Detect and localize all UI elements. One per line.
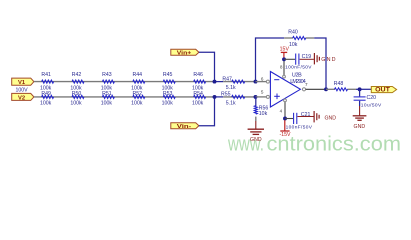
svg-text:100V: 100V xyxy=(15,88,28,94)
svg-text:GND: GND xyxy=(250,137,262,143)
wire bottom chain rail (pins of R49-R54) xyxy=(34,96,215,98)
resistor R49 xyxy=(40,91,54,107)
wire Vin- to bottom chain xyxy=(199,97,215,126)
resistor R54 xyxy=(192,91,206,107)
svg-text:100nF/50V: 100nF/50V xyxy=(286,124,313,130)
wire feedback right down to output xyxy=(314,38,326,89)
svg-text:6: 6 xyxy=(261,77,264,82)
junction node pin5 xyxy=(254,95,258,99)
svg-text:10k: 10k xyxy=(289,42,298,48)
svg-text:100k: 100k xyxy=(131,101,143,107)
capacitor C20 xyxy=(354,89,382,108)
wire feedback left vertical xyxy=(256,38,285,82)
junction bottom chain / Vin- xyxy=(213,95,217,99)
resistor R53 xyxy=(162,91,176,107)
ground for C21 (sideways) xyxy=(298,111,320,122)
svg-text:R52: R52 xyxy=(133,91,143,97)
wire R47 pins xyxy=(223,81,255,83)
svg-text:5.1k: 5.1k xyxy=(226,100,236,106)
svg-text:R53: R53 xyxy=(163,91,173,97)
resistor R44 xyxy=(131,72,145,92)
pin 4 stub (V-) xyxy=(284,102,286,119)
svg-text:LM2904: LM2904 xyxy=(290,79,306,85)
svg-text:R46: R46 xyxy=(193,72,203,78)
svg-text:5: 5 xyxy=(261,90,264,95)
svg-text:100k: 100k xyxy=(101,101,113,107)
svg-text:GND: GND xyxy=(321,57,335,63)
wire bottom chain navy segment xyxy=(215,96,224,98)
port Vin+ xyxy=(171,49,199,55)
ground for C19 (sideways) xyxy=(300,53,320,64)
ground for R56 xyxy=(248,121,264,134)
svg-text:V2: V2 xyxy=(18,95,25,101)
svg-text:R51: R51 xyxy=(102,91,112,97)
resistor R51 xyxy=(101,91,115,107)
wire top chain navy segment xyxy=(215,81,224,83)
svg-text:100k: 100k xyxy=(70,101,82,107)
svg-text:R54: R54 xyxy=(193,91,203,97)
junction V- rail xyxy=(283,117,287,121)
junction top chain / Vin+ xyxy=(213,80,217,84)
ground for C20 xyxy=(353,106,367,120)
svg-text:100k: 100k xyxy=(162,101,174,107)
resistor R55 xyxy=(221,92,245,107)
resistor R56 xyxy=(254,106,268,121)
resistor R40 xyxy=(284,29,314,48)
svg-text:R42: R42 xyxy=(72,72,82,78)
wire top chain rail (pins of R41-R46) xyxy=(34,81,215,83)
port V2 xyxy=(12,93,34,100)
svg-text:R47: R47 xyxy=(222,76,232,82)
junction output/feedback xyxy=(324,87,328,91)
pin 6 stub xyxy=(256,81,267,83)
svg-text:15V: 15V xyxy=(280,47,290,53)
capacitor C19 xyxy=(284,54,312,71)
svg-text:R50: R50 xyxy=(72,91,82,97)
port Vin- xyxy=(171,123,199,129)
port OUT xyxy=(371,87,396,93)
resistor R47 xyxy=(222,76,244,91)
wire Vin+ to top chain xyxy=(199,52,215,81)
svg-text:R45: R45 xyxy=(163,72,173,78)
svg-text:100k: 100k xyxy=(40,101,52,107)
svg-text:10u/50V: 10u/50V xyxy=(361,102,382,108)
svg-text:Vin-: Vin- xyxy=(177,124,192,130)
resistor R45 xyxy=(162,72,176,92)
resistor R48 xyxy=(326,81,356,91)
pin 7 stub xyxy=(302,88,305,91)
svg-text:R43: R43 xyxy=(102,72,112,78)
power -15V xyxy=(280,120,291,138)
svg-text:C20: C20 xyxy=(367,95,377,101)
pin 5 stub xyxy=(256,96,267,98)
resistor R43 xyxy=(101,72,115,92)
svg-text:R44: R44 xyxy=(133,72,143,78)
svg-text:Vin+: Vin+ xyxy=(177,51,192,57)
resistor R41 xyxy=(40,72,54,92)
resistor R46 xyxy=(192,72,206,92)
port V1 xyxy=(12,78,34,85)
svg-text:5.1k: 5.1k xyxy=(226,85,236,91)
svg-text:OUT: OUT xyxy=(375,88,390,94)
svg-text:GND: GND xyxy=(325,115,337,121)
svg-text:100nF/50V: 100nF/50V xyxy=(285,65,312,71)
svg-text:R49: R49 xyxy=(41,91,51,97)
svg-text:R41: R41 xyxy=(41,72,51,78)
svg-text:10k: 10k xyxy=(259,111,268,117)
junction V+ rail xyxy=(282,57,286,61)
svg-text:R55: R55 xyxy=(221,92,231,98)
op-amp U2B xyxy=(270,72,305,108)
junction node pin6 xyxy=(254,80,258,84)
pin 8 stub (V+) xyxy=(283,59,285,75)
junction output/C20 xyxy=(358,87,362,91)
svg-text:V1: V1 xyxy=(18,80,26,86)
svg-text:U2B: U2B xyxy=(292,73,302,79)
svg-text:GND: GND xyxy=(354,124,366,130)
power 15V xyxy=(280,47,290,60)
resistor R42 xyxy=(70,72,84,92)
wire pin5 node down to R56 xyxy=(255,97,257,106)
svg-text:7: 7 xyxy=(305,82,308,87)
wire R48 to OUT xyxy=(356,88,371,90)
resistor R50 xyxy=(70,91,84,107)
resistor R52 xyxy=(131,91,145,107)
wire R55 pins xyxy=(223,96,255,98)
capacitor C21 xyxy=(285,112,313,131)
svg-text:100k: 100k xyxy=(192,101,204,107)
svg-text:R40: R40 xyxy=(288,29,298,35)
svg-text:R48: R48 xyxy=(334,81,344,87)
svg-text:-15V: -15V xyxy=(280,132,291,138)
